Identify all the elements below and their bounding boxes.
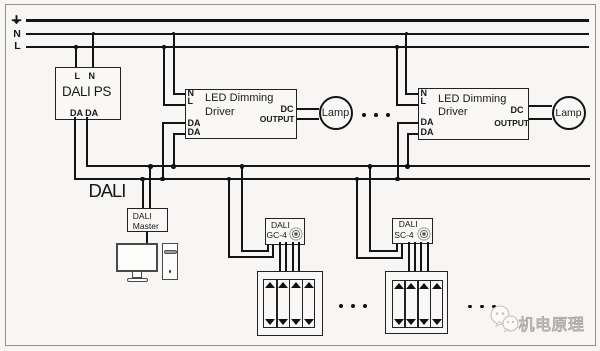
- wire: N bus to driver1 N: [173, 33, 175, 95]
- power supply U1 DALI PS: [55, 67, 121, 120]
- GC-4 logo circle: [289, 227, 303, 241]
- driver U2 LED Dimming Driver 1: [185, 89, 297, 139]
- value label LED Dimming Driver (driver1): [205, 92, 273, 104]
- switch panel SW1 outer: [257, 271, 323, 337]
- wire: DALI PS DA2 down to DALI bus1: [86, 117, 88, 167]
- label N: [13, 28, 21, 40]
- junction driver2 N on N bus: [405, 32, 409, 36]
- junction driver1 N on N bus: [172, 32, 176, 36]
- label L: [14, 40, 20, 52]
- ellipsis dots after lamp1: [362, 113, 366, 117]
- ground symbol (PE earth): [10, 14, 24, 25]
- junction PS N on N bus: [92, 32, 96, 36]
- wire: N bus to driver2 N: [405, 33, 407, 95]
- SW2 down arrows: [394, 319, 404, 325]
- PC stand: [132, 272, 142, 278]
- wire: bus2 to GC-4 (outer): [228, 178, 230, 258]
- wire: bus2 to DALI Master: [142, 178, 144, 208]
- label DALI bus: [89, 180, 126, 202]
- pin label DA2 (driver2): [421, 127, 434, 137]
- wire: N bus to DALI PS N terminal: [92, 33, 94, 68]
- junction PS L on L bus: [74, 45, 78, 49]
- pin label L (driver1): [188, 96, 194, 106]
- wire: L bus to driver1 L: [163, 46, 165, 106]
- pin label OUTPUT (driver2): [494, 118, 529, 128]
- pin label DC (driver2): [511, 105, 524, 115]
- PE bus line: [26, 19, 589, 22]
- junction: [140, 177, 145, 182]
- SC-4 logo circle: [417, 227, 431, 241]
- SW1 down arrows: [265, 319, 275, 325]
- DALI bus2 (lower): [74, 178, 590, 180]
- N bus line: [26, 33, 589, 35]
- junction: [240, 164, 245, 169]
- junction: [405, 164, 410, 169]
- driver U3 LED Dimming Driver 2: [418, 88, 529, 140]
- watermark logo bubbles: [489, 304, 523, 338]
- wire: driver2 DA2 to bus1: [407, 133, 419, 135]
- SW2 column separators: [404, 281, 406, 327]
- wire: driver2 DC to lamp2: [529, 105, 552, 107]
- wires GC-4 to switch panel 1: [279, 242, 281, 271]
- pin label N (driver1): [188, 88, 195, 98]
- lamp LP1: [319, 96, 353, 130]
- pin label DA1 (driver2): [421, 117, 434, 127]
- PC base: [127, 278, 148, 282]
- PC tower dot: [169, 270, 172, 273]
- pin label N (PS): [89, 71, 96, 81]
- wire: bus2 to SC-4 (outer): [356, 178, 358, 259]
- junction: [160, 177, 165, 182]
- SW2 up arrows: [394, 283, 404, 289]
- junction driver1 L on L bus: [162, 45, 166, 49]
- switch panel SW2 inner: [392, 280, 443, 328]
- wire: driver1 OUTPUT to lamp1: [297, 118, 319, 120]
- wire: L bus to driver2 L: [396, 46, 398, 106]
- pin label DA1 (driver1): [188, 118, 201, 128]
- wire: driver2 DA1 to bus2: [397, 122, 418, 124]
- PC tower slot: [164, 250, 177, 254]
- switch panel SW1 inner: [263, 279, 315, 328]
- PC tower: [162, 243, 178, 281]
- junction: [148, 164, 153, 169]
- ellipsis dots between panels: [339, 304, 343, 308]
- controller U6 DALI SC-4: [392, 218, 432, 244]
- pin labels DA DA (PS): [70, 108, 98, 118]
- lamp LP2: [552, 96, 586, 130]
- SW1 up arrows: [265, 282, 275, 288]
- value label LED Dimming Driver (driver2): [438, 93, 506, 105]
- pin label L (driver2): [421, 96, 427, 106]
- SW1 column separators: [276, 280, 278, 327]
- junction: [355, 177, 360, 182]
- pin label DC (driver1): [281, 104, 294, 114]
- pin label DA2 (driver1): [188, 127, 201, 137]
- wire: driver1 DA2 to bus1: [173, 133, 186, 135]
- controller U4 DALI Master: [127, 208, 168, 232]
- junction driver2 L on L bus: [395, 45, 399, 49]
- ellipsis dots after panel 2: [468, 305, 472, 309]
- PC monitor: [116, 243, 158, 272]
- switch panel SW2 outer: [385, 271, 449, 334]
- wire: L bus to DALI PS L terminal: [75, 46, 77, 67]
- junction: [368, 164, 373, 169]
- pin label L (PS): [75, 71, 81, 81]
- L bus line: [26, 46, 589, 48]
- junction: [227, 177, 232, 182]
- controller U5 DALI GC-4: [265, 218, 305, 245]
- wire: bus1 to GC-4 (inner): [241, 165, 243, 252]
- junction: [171, 164, 176, 169]
- junction: [395, 177, 400, 182]
- wire: driver1 DC to lamp1: [297, 108, 319, 110]
- DALI bus1 (upper): [86, 165, 590, 167]
- watermark text: [519, 311, 585, 335]
- wire: bus1 to DALI Master: [149, 165, 151, 208]
- pin label OUTPUT (driver1): [260, 114, 295, 124]
- value label DALI PS: [62, 84, 111, 99]
- wire: driver1 DA1 to bus2: [162, 122, 186, 124]
- wire: DALI Master to PC: [146, 232, 148, 244]
- wire: driver2 OUTPUT to lamp2: [529, 118, 552, 120]
- wire: bus1 to SC-4 (inner): [369, 165, 371, 252]
- wire: DALI PS DA1 down to DALI bus2: [74, 117, 76, 180]
- pin label N (driver2): [421, 88, 428, 98]
- wires SC-4 to switch panel 2: [408, 242, 410, 272]
